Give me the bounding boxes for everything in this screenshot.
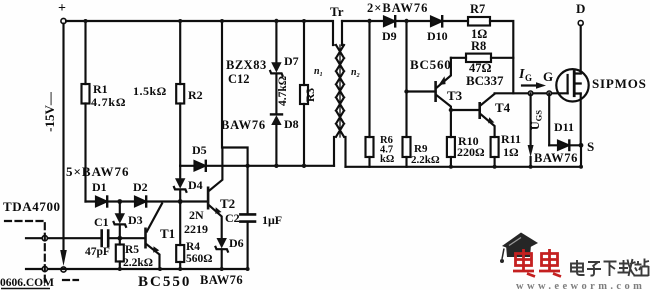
svg-text:1μF: 1μF: [262, 213, 282, 227]
svg-text:R11: R11: [501, 132, 521, 146]
svg-text:560Ω: 560Ω: [186, 253, 212, 265]
svg-text:R2: R2: [188, 88, 203, 102]
wire D5 line: [180, 165, 334, 167]
node TDA pin2: [42, 266, 47, 271]
svg-text:Tr: Tr: [330, 4, 344, 19]
node R9 top: [404, 19, 408, 23]
node R3 bottom: [302, 164, 306, 168]
svg-text:BAW76: BAW76: [221, 118, 266, 132]
svg-text:R4: R4: [186, 241, 200, 253]
pin circle on TDA4700 edge: [42, 236, 47, 241]
svg-text:D2: D2: [133, 180, 148, 194]
svg-text:D10: D10: [427, 29, 448, 43]
node C1/R5/D3 junction: [117, 236, 122, 241]
node gate D11: [547, 91, 552, 96]
wire BZX column with step: [222, 22, 248, 166]
svg-text:BAW76: BAW76: [200, 273, 243, 287]
diode D11: [558, 141, 569, 151]
resistor R2: [176, 21, 184, 166]
watermark site name: [571, 259, 649, 277]
svg-text:4.7kΩ: 4.7kΩ: [277, 76, 289, 106]
svg-text:BC550: BC550: [138, 274, 191, 290]
svg-text:T1: T1: [160, 226, 175, 241]
svg-text:47pF: 47pF: [85, 246, 110, 258]
svg-text:www.eeworm.com: www.eeworm.com: [516, 281, 645, 290]
node D5/C2 junction: [245, 164, 249, 168]
transistor T4 BC337: [451, 94, 495, 137]
diode D4 zener: [174, 166, 186, 202]
svg-text:I: I: [518, 67, 525, 82]
svg-text:R7: R7: [470, 2, 485, 16]
resistor R9: [403, 21, 411, 167]
wire secondary top rail: [342, 21, 513, 93]
wire top rail primary: [66, 21, 333, 45]
svg-text:D7: D7: [284, 54, 299, 68]
-15V arrow: [60, 250, 67, 266]
svg-text:2×BAW76: 2×BAW76: [367, 1, 428, 15]
resistor R7: [468, 17, 490, 26]
resistor R1: [82, 84, 90, 104]
svg-text:R1: R1: [93, 82, 108, 96]
node R6 top: [367, 19, 371, 23]
diode D1: [96, 197, 107, 207]
transistor T3 BC560: [407, 58, 451, 137]
resistor R10: [447, 137, 455, 167]
I_G arrow: [522, 82, 546, 89]
resistor R6: [366, 21, 374, 167]
svg-text:G: G: [525, 73, 532, 83]
wire secondary bottom rail: [346, 166, 582, 168]
node T4 base tap: [449, 108, 453, 112]
wire R1 column: [84, 21, 86, 202]
wire R8 row: [451, 57, 513, 59]
svg-text:D4: D4: [188, 178, 203, 192]
svg-text:D6: D6: [229, 236, 244, 250]
node S: [579, 143, 584, 148]
svg-text:G: G: [543, 69, 553, 84]
svg-text:1.5kΩ: 1.5kΩ: [133, 84, 167, 98]
resistor R8: [466, 54, 491, 62]
svg-text:1Ω: 1Ω: [503, 145, 519, 159]
svg-text:R8: R8: [471, 39, 486, 53]
node D terminal: [578, 21, 583, 26]
svg-text:2219: 2219: [184, 222, 208, 236]
node rail joints: [84, 19, 307, 23]
svg-text:2N: 2N: [189, 208, 204, 222]
svg-text:0606.COM: 0606.COM: [0, 277, 54, 289]
transistor T1: [144, 204, 162, 270]
node -15V bottom: [61, 267, 66, 272]
svg-text:-15V—: -15V—: [42, 91, 57, 132]
svg-text:2.2kΩ: 2.2kΩ: [123, 257, 153, 269]
svg-text:+: +: [58, 1, 66, 16]
svg-text:BC560: BC560: [410, 57, 452, 72]
svg-text:2.2kΩ: 2.2kΩ: [411, 154, 440, 166]
resistor R4: [176, 202, 184, 270]
svg-text:R5: R5: [125, 244, 139, 256]
svg-text:T2: T2: [220, 196, 235, 211]
wire C1 input line: [26, 237, 144, 239]
svg-text:D8: D8: [284, 117, 299, 131]
svg-text:D5: D5: [192, 143, 207, 157]
capacitor C1: [102, 231, 109, 247]
svg-text:4.7kΩ: 4.7kΩ: [91, 95, 126, 109]
wire gate row: [495, 92, 568, 94]
node R4 top junction: [178, 199, 183, 204]
transistor T2: [207, 148, 223, 238]
svg-text:TDA4700: TDA4700: [3, 199, 61, 214]
diode D6 zener: [216, 238, 228, 269]
svg-text:SIPMOS: SIPMOS: [592, 76, 647, 91]
svg-text:220Ω: 220Ω: [457, 145, 485, 159]
diode D5: [195, 161, 206, 171]
diode D7 zener BZX83: [270, 22, 282, 114]
U_GS measure line: [528, 93, 534, 167]
wire -15V line: [62, 24, 64, 252]
svg-text:D9: D9: [382, 29, 397, 43]
svg-text:BAW76: BAW76: [534, 151, 578, 165]
resistor R5: [116, 238, 124, 269]
svg-text:T4: T4: [495, 100, 511, 115]
diode D2: [135, 197, 146, 207]
resistor R11: [491, 137, 499, 167]
svg-text:S: S: [587, 139, 594, 154]
watermark chongchong red text: [513, 249, 561, 277]
svg-text:C12: C12: [228, 72, 250, 86]
diode D10: [431, 16, 442, 26]
watermark underline: [1, 288, 50, 290]
svg-text:D: D: [576, 1, 585, 16]
diode D9: [384, 16, 395, 26]
svg-text:D1: D1: [92, 180, 107, 194]
diode D3 zener: [114, 202, 126, 239]
node bottom rail joints: [118, 267, 250, 271]
wire bottom rail left: [26, 268, 248, 270]
MOSFET SIPMOS: [556, 26, 588, 167]
svg-text:5×BAW76: 5×BAW76: [66, 164, 130, 179]
svg-text:T3: T3: [447, 88, 463, 103]
wire D11 column: [548, 93, 550, 145]
svg-text:kΩ: kΩ: [380, 154, 394, 165]
node D8 bottom: [274, 164, 278, 168]
resistor R3: [300, 22, 308, 166]
svg-text:BC337: BC337: [466, 73, 504, 88]
node D3 tap: [117, 199, 122, 204]
capacitor C2: [240, 166, 255, 269]
watermark cap logo: [500, 233, 538, 264]
node gate U_GS: [528, 91, 533, 96]
svg-text:п₂: п₂: [351, 67, 360, 78]
wire D11 row: [549, 144, 581, 146]
svg-text:п₁: п₁: [314, 66, 323, 77]
node secondary bottom joints: [449, 165, 583, 169]
svg-text:D11: D11: [554, 120, 574, 134]
node D7 rail joint: [274, 19, 278, 23]
TDA4700 dashed box: [5, 221, 78, 283]
svg-text:C1: C1: [94, 215, 109, 229]
svg-text:D3: D3: [128, 213, 143, 227]
node + supply terminal: [61, 18, 66, 23]
svg-text:R3: R3: [305, 88, 317, 102]
wire D1 D2 line: [86, 200, 207, 202]
transformer Tr winding: [333, 21, 346, 167]
svg-text:C2: C2: [225, 211, 240, 225]
node T3 base tap: [404, 89, 408, 93]
diode D8: [271, 114, 282, 165]
svg-text:BZX83: BZX83: [226, 58, 267, 72]
